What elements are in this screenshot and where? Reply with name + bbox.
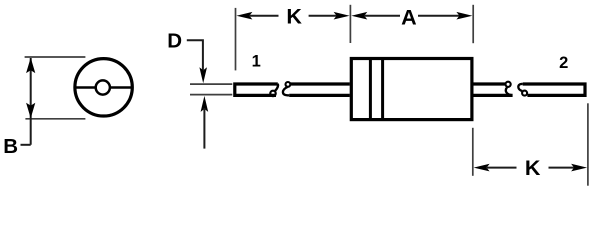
lead 1 outer segment — [235, 84, 278, 96]
lead bottom extension line — [190, 94, 232, 96]
break loop at lead 2 inner segment — [506, 82, 511, 87]
dimension K (bottom) arrows and line — [474, 164, 587, 172]
break loop at lead 2 outer segment — [518, 84, 522, 91]
svg-text:D: D — [167, 29, 182, 52]
dimension D lower arrow — [201, 96, 209, 149]
extension line at body right — [472, 5, 474, 43]
svg-text:A: A — [401, 6, 417, 30]
dimension B extension line top — [25, 56, 86, 58]
lead 1 inner segment — [283, 82, 350, 95]
dimension B arrow line — [26, 58, 35, 145]
svg-text:1: 1 — [252, 52, 261, 70]
label B leader — [21, 144, 31, 146]
end view chord line — [75, 86, 133, 89]
end view lead circle — [96, 80, 110, 94]
cathode band line 2 — [381, 59, 384, 120]
extension line at body left — [349, 5, 351, 43]
dimension D upper arrow — [199, 67, 207, 83]
dimension A arrows and line — [351, 12, 472, 20]
svg-text:2: 2 — [559, 54, 568, 72]
break loop at lead 1 outer segment — [275, 84, 278, 91]
break loop at lead 1 inner segment — [286, 82, 291, 87]
dimension K (top) extension line at lead end — [235, 8, 237, 71]
diode body — [351, 59, 472, 120]
svg-text:K: K — [525, 156, 541, 180]
lead top extension line — [190, 83, 232, 85]
lead 2 outer segment — [518, 84, 585, 96]
dimension K (top) arrows and line — [236, 12, 349, 20]
dimension K (bottom) extension line left — [472, 128, 474, 176]
cathode band line 1 — [369, 59, 372, 120]
label D leader — [187, 40, 203, 70]
lead 2 inner segment — [472, 82, 513, 96]
svg-text:K: K — [286, 5, 302, 29]
dimension K (bottom) extension line right — [587, 103, 589, 185]
end view body circle — [75, 59, 132, 116]
svg-text:B: B — [3, 135, 18, 158]
dimension B extension line bottom — [25, 118, 85, 120]
